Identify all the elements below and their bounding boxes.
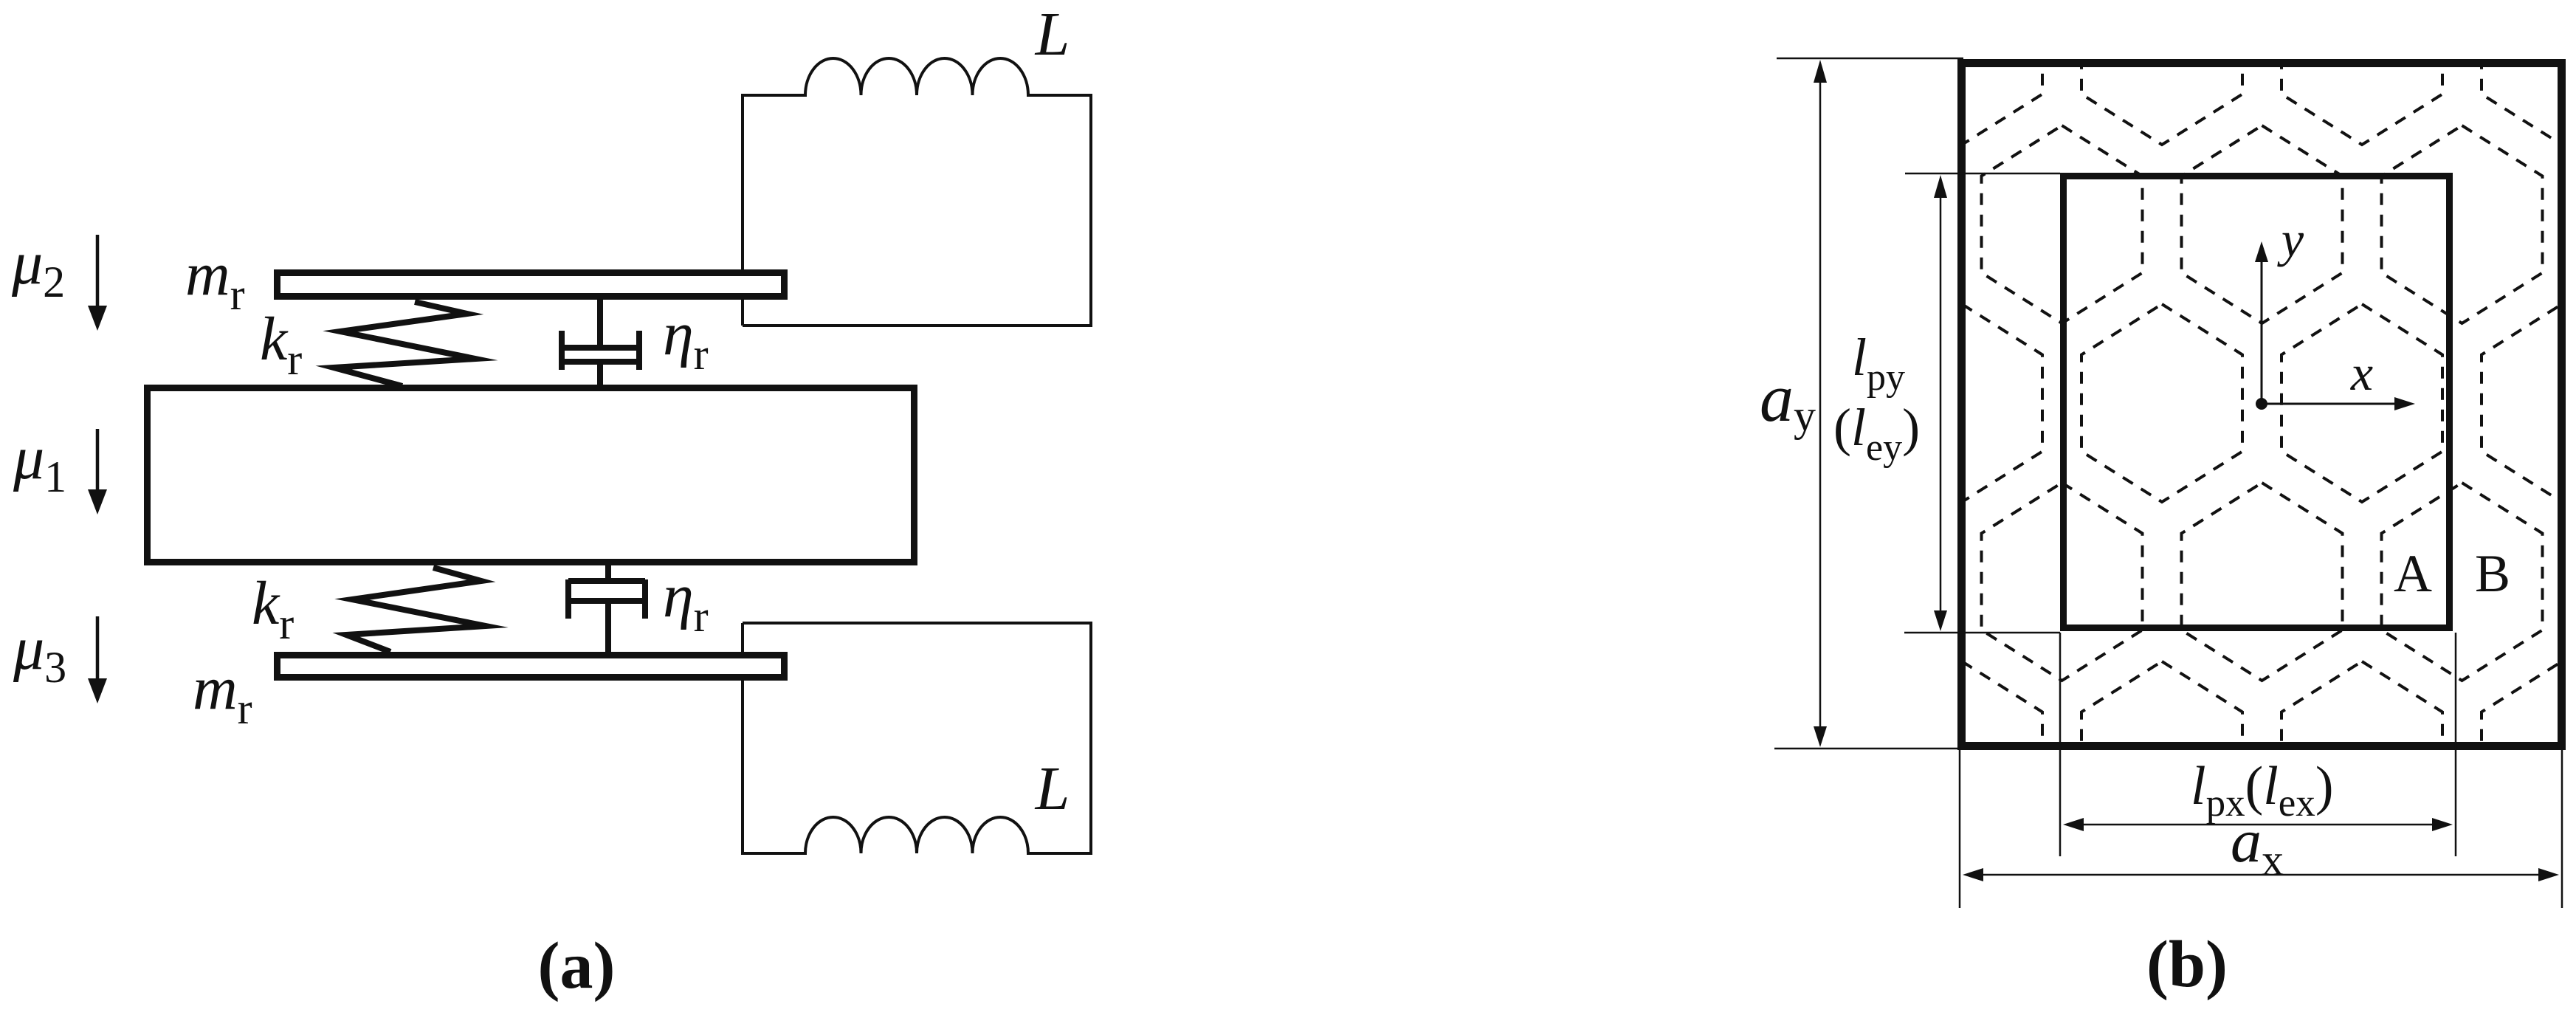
wire top circuit loop xyxy=(743,58,1091,326)
svg-text:L: L xyxy=(1035,754,1070,823)
dimension l_px xyxy=(2060,633,2456,856)
arrow mu2 xyxy=(88,235,107,331)
svg-text:B: B xyxy=(2475,544,2510,603)
damper eta_r bottom xyxy=(568,562,645,654)
dimension a_y xyxy=(1774,58,1963,749)
mass bar m_r bottom xyxy=(278,656,785,678)
svg-text:x: x xyxy=(2350,345,2373,401)
spring k_r top xyxy=(334,302,475,386)
damper eta_r top xyxy=(562,297,639,388)
axis y xyxy=(2255,241,2268,404)
svg-text:A: A xyxy=(2394,544,2432,603)
svg-text:(b): (b) xyxy=(2146,928,2228,1001)
wire bottom circuit loop xyxy=(743,623,1091,853)
node origin xyxy=(2256,398,2267,410)
dimension a_x xyxy=(1960,750,2562,908)
arrow mu3 xyxy=(88,616,107,703)
svg-text:(a): (a) xyxy=(538,929,616,1002)
main mass plate mu1 xyxy=(148,388,915,562)
spring k_r bottom xyxy=(346,568,486,652)
dimension l_py xyxy=(1904,173,2060,633)
svg-text:L: L xyxy=(1035,0,1070,69)
inner plate square l_px x l_py xyxy=(2064,176,2450,628)
svg-text:y: y xyxy=(2277,211,2304,267)
outer unit cell square a_x x a_y xyxy=(1962,63,2562,746)
axis x xyxy=(2262,397,2415,410)
mass bar m_r top xyxy=(278,273,785,297)
arrow mu1 xyxy=(88,429,107,515)
